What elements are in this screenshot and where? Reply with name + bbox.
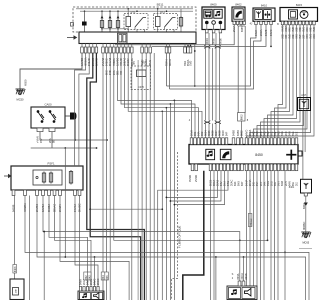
BSI pin 14 — [131, 47, 134, 53]
speaker R pin 1 — [238, 281, 241, 286]
wire code plate — [101, 272, 105, 280]
svg-text:8410: 8410 — [261, 4, 268, 8]
wire BSI down — [145, 53, 147, 300]
icon note frame in radio — [206, 149, 215, 159]
wire — [180, 9, 182, 16]
svg-text:MC50: MC50 — [17, 98, 24, 102]
relay RT1 coil — [126, 17, 131, 27]
fuse F2 — [108, 19, 111, 29]
wire 8410 pin1 via bus to BSI — [167, 25, 257, 86]
switch contact 2 — [49, 111, 56, 123]
connector block cell 2 — [123, 35, 126, 42]
radio bottom pin D12 — [284, 164, 287, 171]
wire from 8400 — [219, 33, 221, 45]
connector C075 inner block — [137, 70, 147, 77]
radio bottom pin C4 — [220, 164, 223, 171]
BSI pin 17 — [149, 47, 152, 53]
PSF1 pin 7 — [59, 190, 62, 196]
pin wire stub — [127, 44, 129, 48]
bus junction — [117, 10, 119, 12]
wire PSF1 pin9 down — [79, 196, 81, 300]
radio bottom pin C8 — [234, 164, 237, 171]
svg-text:84H: 84H — [288, 131, 291, 136]
wire to ground MC50 — [20, 53, 82, 89]
BSI pin 8 — [109, 47, 112, 53]
screened cable from 8402 (right conductor) — [244, 26, 246, 113]
BSI unit B511 dashed enclosure — [73, 7, 196, 32]
8400 jack contact 2 — [212, 21, 216, 25]
car radio 8450 — [189, 145, 298, 165]
svg-text:20D: 20D — [285, 131, 288, 136]
wire PSF1 pin2 bus to right elbow — [25, 196, 309, 300]
wire down — [137, 60, 139, 300]
8410 pin — [260, 21, 263, 24]
wire down to bottom — [165, 108, 167, 300]
svg-text:RT2: RT2 — [160, 10, 165, 14]
8415 pin 3 — [288, 21, 291, 25]
wire 8415 to radio — [268, 25, 294, 138]
8400 pin — [206, 30, 209, 33]
wire BSI down — [141, 53, 143, 300]
wire from 8400 — [215, 33, 217, 45]
wire 8402 pin1 to BSI bus — [115, 25, 234, 45]
wire — [65, 115, 70, 117]
BSI pin 10 — [116, 47, 119, 53]
speaker cone frame L — [92, 293, 103, 300]
BSI internal supply bus wire 1 — [76, 8, 193, 10]
antenna amplifier 8410 — [253, 8, 275, 21]
radio top pin A4 — [201, 138, 204, 145]
wire down from junction — [43, 232, 45, 300]
radio top pin B5 — [259, 138, 262, 145]
svg-text:20B: 20B — [260, 131, 263, 136]
junction — [94, 256, 96, 258]
BSI pin 21 — [187, 47, 190, 53]
wire — [305, 196, 307, 203]
twisted pair mark — [204, 121, 210, 124]
wire — [166, 30, 168, 33]
junction at fuse bottom — [101, 28, 103, 30]
svg-text:+VAN: +VAN — [36, 136, 40, 143]
wire — [144, 30, 146, 33]
wire to radio — [215, 48, 217, 121]
radio top pin B6 — [263, 138, 266, 145]
junction — [74, 139, 76, 141]
wire CA00 to bundle — [40, 132, 107, 140]
PSF1 pin 9 — [78, 190, 81, 196]
radio top pin A10 — [222, 138, 225, 145]
svg-text:84M: 84M — [281, 181, 284, 186]
svg-text:8403B: 8403B — [12, 204, 16, 212]
pin wire stub — [88, 44, 90, 48]
engine fusebox PSF1 — [11, 166, 83, 190]
ground MC65 — [301, 232, 310, 238]
screened cable from 8402 (left conductor) — [237, 26, 239, 113]
wire to radio — [208, 48, 210, 121]
BSI pin 16 — [145, 47, 148, 53]
radio top pin A11 — [225, 138, 228, 145]
cable label 8602 — [238, 113, 245, 122]
pin wire stub — [169, 44, 171, 48]
junction — [243, 256, 245, 258]
junction — [170, 103, 172, 105]
svg-text:84VA: 84VA — [237, 273, 240, 279]
wire BSI to radio pin A2 — [121, 53, 195, 138]
BSI pin 4 — [92, 47, 95, 53]
icon disc in 8415 — [300, 10, 308, 18]
radio top pin B13 — [288, 138, 291, 145]
radio top pin A5 — [204, 138, 207, 145]
wire label plate 8403B — [13, 265, 17, 274]
wire radio C1 down — [210, 171, 212, 300]
svg-text:84F: 84F — [226, 131, 229, 136]
junction — [194, 85, 196, 87]
wire — [157, 9, 159, 17]
svg-text:845: 845 — [106, 275, 109, 280]
wire PSF1 pin1 to bottom box — [14, 196, 16, 265]
PSF1 pin 4 — [42, 190, 45, 196]
svg-text:84N: 84N — [288, 181, 291, 186]
svg-text:84C: 84C — [253, 131, 256, 136]
wire BSI to radio pin A3 — [125, 53, 199, 138]
fuse arrow — [109, 15, 112, 18]
radio top pin B12 — [284, 138, 287, 145]
8415 pin 5 — [295, 21, 298, 25]
wire 8415 to radio — [275, 25, 287, 138]
8415 pin 4 — [292, 21, 295, 25]
pin wire stub — [187, 44, 189, 48]
radio top pin s3 — [240, 138, 243, 145]
wire — [213, 24, 215, 29]
radio top pin A7 — [211, 138, 214, 145]
antenna icon 8401 — [304, 183, 309, 189]
wire BSI down — [102, 53, 104, 300]
wire — [134, 27, 136, 30]
svg-text:8602: 8602 — [240, 114, 244, 120]
bus junction — [109, 10, 111, 12]
wire to radio pin — [219, 124, 221, 138]
pin wire stub — [131, 44, 133, 48]
radio bottom pin D5 — [259, 164, 262, 171]
wire radio D down to speaker area — [253, 171, 255, 286]
8415 pin 6 — [299, 21, 302, 25]
PSF1 pin 3 — [36, 190, 39, 196]
radio top pin B11 — [281, 138, 284, 145]
radio bottom pin C9 — [237, 164, 240, 171]
svg-text:8403: 8403 — [14, 266, 17, 272]
icon dome in radio — [222, 151, 229, 158]
speaker cone icon L — [94, 293, 99, 299]
radio bottom pin D9 — [274, 164, 277, 171]
wire — [14, 273, 16, 279]
relay RT2 dashed box — [154, 14, 178, 30]
fuse in PSF1 — [49, 172, 52, 184]
bus junction — [127, 8, 129, 10]
speaker R pin 2 — [242, 281, 245, 286]
wire — [127, 27, 129, 33]
wire radio D down — [277, 171, 279, 300]
bus junction — [166, 10, 168, 12]
speaker L pin — [83, 287, 85, 292]
radio top pin B4 — [256, 138, 259, 145]
radio bottom pin D13 — [288, 164, 291, 171]
wire radio C5 to bundle — [174, 171, 224, 205]
icon note in 8400 — [214, 9, 222, 18]
8415 pin 8 — [306, 21, 309, 25]
fuse MF1 in PSF1 — [69, 170, 72, 185]
junction — [174, 100, 176, 102]
battery junction box BB00 — [10, 279, 24, 300]
junction — [96, 147, 98, 149]
wire 8415 to radio — [261, 25, 301, 138]
junction — [161, 208, 163, 210]
radio top pin B14 — [292, 138, 295, 145]
wire PSF1 pin7 bus y261 — [60, 196, 129, 300]
radio top pin A3 — [197, 138, 200, 145]
wire BSI down — [131, 53, 133, 300]
radio right stub connector — [298, 151, 302, 156]
antenna connector 8401 — [301, 179, 312, 193]
wire code plate — [87, 272, 91, 280]
wire 8415 to radio — [264, 25, 297, 138]
svg-text:8VC: 8VC — [267, 131, 270, 136]
junction at fuse bottom — [109, 28, 111, 30]
radio bottom pin D1 — [245, 164, 248, 171]
fuse F3 — [116, 19, 119, 29]
wire to radio pin — [208, 124, 210, 138]
svg-text:8VJ: 8VJ — [292, 181, 295, 186]
svg-text:8400: 8400 — [210, 3, 217, 7]
8410 pin — [265, 21, 268, 24]
svg-text:8450: 8450 — [255, 153, 263, 157]
optional connector C075 dashed box — [131, 66, 151, 90]
icon display in 8400 — [204, 9, 212, 18]
wire BSI to PSF1 top 2 — [79, 53, 89, 166]
radio top pin A9 — [218, 138, 221, 145]
fuse F10 — [179, 16, 182, 28]
radio bottom pin D15 — [295, 164, 298, 171]
radio bottom pin D7 — [267, 164, 270, 171]
svg-text:20CA: 20CA — [241, 273, 244, 280]
icon frame speaker — [264, 10, 272, 20]
wire — [206, 24, 208, 29]
radio bottom pin C2 — [213, 164, 216, 171]
relay RT1 contact — [135, 18, 143, 28]
BSI pin 20 — [184, 47, 187, 53]
ignition switch CA00 box — [31, 107, 65, 128]
BSI pin 15 — [141, 47, 144, 53]
fuse arrow — [117, 15, 120, 18]
8410 pin — [270, 21, 273, 24]
wire from BSI bar corner down to rail — [194, 44, 196, 87]
8415 pin 10 — [313, 21, 316, 25]
svg-text:84VB: 84VB — [245, 273, 248, 279]
svg-text:0VMR: 0VMR — [188, 175, 192, 182]
icon dome in 8402 — [235, 11, 241, 18]
svg-text:84VD: 84VD — [246, 130, 249, 136]
svg-text:2VMR: 2VMR — [194, 175, 198, 182]
pin wire stub — [166, 44, 168, 48]
relay RT2 coil — [156, 17, 161, 27]
wire radio D down — [270, 171, 272, 300]
radio bottom pin D11 — [281, 164, 284, 171]
8415 pin 7 — [302, 21, 305, 25]
BSI pin 1 — [81, 47, 84, 53]
radio top pin B8 — [270, 138, 273, 145]
component V1 (diode) in BSI — [82, 22, 87, 26]
svg-text:20DA: 20DA — [285, 25, 288, 31]
fuse F1 — [100, 19, 103, 29]
BSI connector bar — [79, 32, 196, 44]
wire PSF1 pin5 to left speaker — [49, 196, 88, 287]
svg-text:20DA: 20DA — [249, 129, 252, 136]
wire code plate M0512 — [248, 214, 252, 227]
svg-text:B: B — [277, 22, 279, 26]
wire 8410 pin4 joins bus — [270, 25, 272, 47]
wire 8410 pin3 to BSI bar — [152, 25, 266, 47]
telematic unit 8402 — [232, 7, 245, 21]
thick wire from radio to bottom — [183, 171, 204, 300]
radio bottom pin D6 — [263, 164, 266, 171]
wire radio D down — [274, 171, 276, 300]
svg-text:B511: B511 — [157, 3, 164, 7]
wire — [136, 30, 138, 33]
switch contact 1 — [37, 111, 44, 123]
icon frame in 8402 — [234, 9, 243, 19]
svg-text:M050: M050 — [24, 79, 28, 86]
svg-text:8H: 8H — [134, 61, 136, 64]
8402 pin — [243, 21, 245, 24]
svg-text:843: 843 — [88, 275, 91, 280]
bus junction — [84, 10, 86, 12]
svg-text:8602: 8602 — [241, 130, 244, 136]
radio bottom pin D14 — [292, 164, 295, 171]
radio bottom pin D8 — [270, 164, 273, 171]
radio bottom pin C6 — [227, 164, 230, 171]
junction — [187, 44, 189, 46]
wire — [219, 24, 221, 29]
svg-text:20HA: 20HA — [249, 179, 252, 186]
wire BSI down — [106, 53, 108, 300]
8402 pin — [240, 21, 242, 24]
wire BSI to radio pin A4 — [128, 53, 202, 138]
junction — [166, 197, 168, 199]
radio bottom pin C10 — [241, 164, 244, 171]
BSI pin 19 — [168, 47, 171, 53]
BSI pin 22 — [189, 47, 192, 53]
wire PSF1 pin8 to left speaker — [75, 196, 98, 287]
wire BSI down — [153, 53, 155, 300]
bus junction — [157, 8, 159, 10]
junction — [170, 200, 172, 202]
remote control unit 8400 — [202, 7, 225, 30]
pin wire stub — [81, 44, 83, 48]
wire PSF1 pin4 bus to speaker feed — [43, 196, 240, 282]
svg-text:20A: 20A — [48, 138, 52, 143]
PSF1 pin 6 — [53, 190, 56, 196]
CD changer 8415 — [280, 8, 318, 22]
8401 pin — [304, 193, 307, 196]
pin wire stub — [109, 44, 111, 48]
icon cartridge in 8415 — [289, 10, 298, 19]
radio top pin B2 — [249, 138, 252, 145]
wire BSI to dark bus lower — [90, 53, 140, 300]
svg-text:C075: C075 — [138, 86, 144, 89]
svg-text:84E: 84E — [274, 131, 277, 136]
junction — [174, 204, 176, 206]
radio top pin A6 — [208, 138, 211, 145]
svg-text:9006: 9006 — [218, 38, 222, 44]
wire to speaker — [94, 257, 96, 287]
connector block cell 1 — [119, 35, 122, 42]
junction — [106, 139, 108, 141]
junction at fuse bottom — [117, 28, 119, 30]
icon dome frame in radio — [220, 149, 231, 159]
relay RT1 dashed box — [124, 14, 148, 30]
front right speaker 8422 — [227, 286, 257, 300]
pin wire stub — [120, 44, 122, 48]
wire BSI down — [149, 53, 151, 300]
wire — [101, 29, 103, 32]
icon cartridge inner — [290, 12, 295, 18]
radio bottom pin C7 — [230, 164, 233, 171]
wire — [157, 27, 159, 33]
svg-text:M0512: M0512 — [250, 218, 252, 226]
antenna icon ANT — [302, 101, 307, 107]
junction — [194, 50, 196, 52]
8400 pin — [219, 30, 222, 33]
fuse output rail — [102, 28, 128, 30]
antenna inner frame — [299, 99, 308, 108]
twisted pair mark — [204, 45, 210, 48]
speaker L pin — [93, 287, 95, 292]
wire 8415 to radio — [247, 25, 315, 138]
front left speaker 8421 — [78, 291, 104, 300]
pin wire stub — [190, 44, 192, 48]
radio top pin A8 — [215, 138, 218, 145]
wire to radio pin — [241, 121, 243, 138]
radio top pin B15 — [295, 138, 298, 145]
svg-text:PSF1: PSF1 — [48, 162, 55, 166]
CA00 pin 1 — [37, 128, 43, 132]
wire 8410 pin2 via bus to BSI — [170, 25, 262, 89]
svg-text:20CC: 20CC — [97, 278, 100, 285]
BSI internal supply bus wire 2 — [80, 10, 193, 12]
BSI pin 5 — [95, 47, 98, 53]
svg-text:20C: 20C — [270, 131, 273, 136]
speaker icon frame L — [80, 293, 91, 300]
pin wire stub — [145, 44, 147, 48]
junction — [270, 46, 272, 48]
icon frame antenna — [255, 10, 263, 20]
wire radio D12 down with junction — [284, 171, 286, 300]
fuse arrow — [101, 15, 104, 18]
radio bottom pin V1 — [191, 164, 194, 171]
wire — [109, 29, 111, 32]
radio top pin B3 — [252, 138, 255, 145]
svg-text:8VB: 8VB — [256, 131, 259, 136]
svg-text:8VD: 8VD — [278, 131, 281, 136]
wire — [101, 11, 103, 19]
inline connector on antenna ground — [304, 203, 308, 207]
BSI pin 11 — [120, 47, 123, 53]
wire radio D7 to bus — [267, 171, 269, 241]
speaker cone frame R — [242, 288, 255, 299]
speaker L pin — [97, 287, 99, 292]
wire — [240, 25, 242, 27]
BSI pin 18 — [165, 47, 168, 53]
wire to radio — [219, 48, 221, 121]
